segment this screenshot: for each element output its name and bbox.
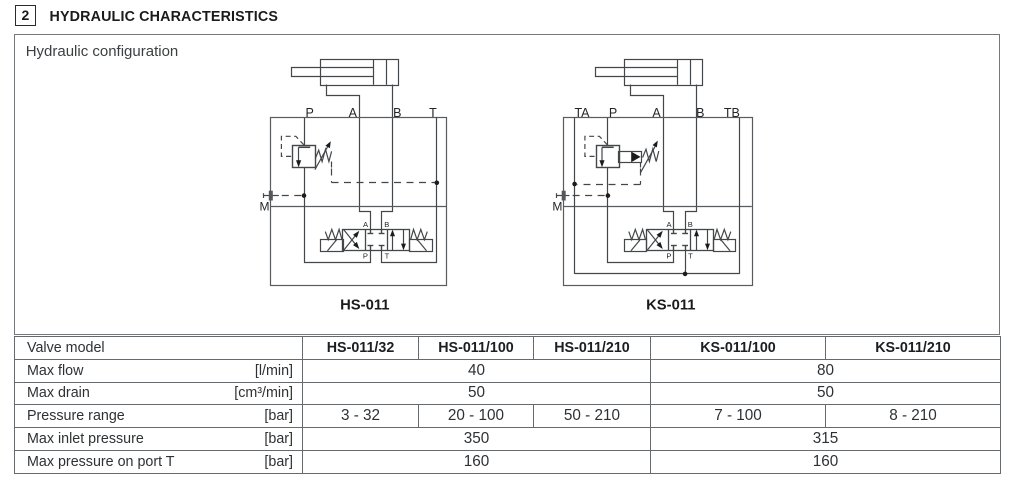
- wire T line to valve T: [382, 118, 437, 263]
- wire valve T to tank manifold: [685, 251, 687, 274]
- proportional solenoid box: [619, 152, 642, 163]
- envelope midline (KS): [564, 206, 752, 208]
- solenoid a (HS valve): [321, 240, 344, 252]
- svg-text:HS-011: HS-011: [340, 298, 389, 314]
- node P junction (KS): [606, 193, 611, 198]
- relief valve flow arrow: [298, 147, 300, 161]
- DV crossed arrows (left position): [344, 230, 360, 250]
- DV port labels: [363, 220, 390, 260]
- wire tank manifold bottom: [575, 273, 740, 275]
- figure frame: [14, 34, 1000, 335]
- relief valve seat (KS): [602, 146, 614, 148]
- relief valve spring (KS): [643, 149, 659, 162]
- proportional solenoid arrow: [631, 152, 640, 163]
- cylinder (HS actuator): [292, 59, 399, 85]
- DV crossed arrows (KS left position): [647, 230, 663, 250]
- solenoid b (HS valve): [410, 240, 433, 252]
- port M gauge symbol: [264, 191, 305, 201]
- svg-text:M: M: [260, 199, 270, 213]
- relief valve drain (dashed) to T: [331, 162, 333, 168]
- envelope (KS subplate): [564, 118, 753, 286]
- port M gauge symbol (KS): [557, 191, 608, 201]
- wire TB line: [739, 118, 741, 274]
- wire P upper: [304, 118, 306, 146]
- wire cylinder B to envelope: [382, 85, 393, 230]
- relief valve pilot line (dashed): [281, 136, 304, 156]
- spring b (KS valve): [714, 229, 731, 239]
- wire cylinder A to envelope: [327, 85, 371, 230]
- DV blocked ports (centre position): [368, 229, 385, 251]
- directional valve DV body (KS): [647, 230, 714, 251]
- svg-text:A: A: [363, 220, 369, 229]
- figure caption text: [26, 43, 179, 60]
- svg-text:M: M: [552, 199, 562, 213]
- svg-text:A: A: [666, 220, 672, 229]
- relief valve adjustment arrow (KS): [640, 146, 655, 173]
- envelope (HS subplate): [271, 118, 447, 286]
- section title: [50, 9, 279, 25]
- spring b (HS valve): [411, 229, 428, 239]
- spring a (KS valve): [629, 229, 646, 239]
- wire cylinder B to envelope (KS): [686, 85, 697, 230]
- wire TA line: [574, 118, 576, 274]
- DV parallel arrows (right position): [390, 230, 406, 251]
- wire P upper (KS): [607, 118, 609, 146]
- wire cylinder A to envelope (KS): [631, 85, 674, 230]
- DV parallel arrows (KS right position): [694, 230, 710, 251]
- section number box: [15, 5, 37, 26]
- relief valve RV body: [293, 146, 316, 168]
- envelope midline: [271, 206, 447, 208]
- relief valve RV body (KS): [597, 146, 620, 168]
- relief valve flow arrow (KS): [601, 147, 603, 161]
- svg-text:T: T: [688, 251, 693, 260]
- DV port labels (KS): [666, 220, 693, 260]
- svg-text:P: P: [666, 251, 671, 260]
- svg-text:B: B: [384, 220, 389, 229]
- relief valve pilot line (dashed, KS): [585, 136, 608, 156]
- node T junction (KS): [683, 272, 688, 277]
- characteristics table: [14, 336, 1001, 474]
- wire P lower to valve P (KS): [608, 168, 674, 263]
- relief valve seat: [299, 146, 311, 148]
- svg-text:KS-011: KS-011: [646, 298, 695, 314]
- svg-text:T: T: [385, 251, 390, 260]
- directional valve DV body (HS): [343, 230, 410, 251]
- spring a (HS valve): [325, 229, 342, 239]
- solenoid a (KS valve): [625, 240, 647, 252]
- node TA junction: [572, 182, 577, 187]
- wire P lower to valve P: [305, 168, 371, 263]
- cylinder (KS actuator): [596, 59, 703, 85]
- relief valve spring: [315, 149, 331, 161]
- relief valve drain (dashed) to TA: [640, 163, 642, 168]
- node T junction: [435, 181, 440, 186]
- DV blocked ports (KS centre position): [671, 229, 688, 251]
- node P junction: [302, 193, 307, 198]
- svg-text:P: P: [363, 251, 368, 260]
- svg-text:B: B: [688, 220, 693, 229]
- relief valve adjustment arrow: [315, 146, 328, 170]
- solenoid b (KS valve): [714, 240, 736, 252]
